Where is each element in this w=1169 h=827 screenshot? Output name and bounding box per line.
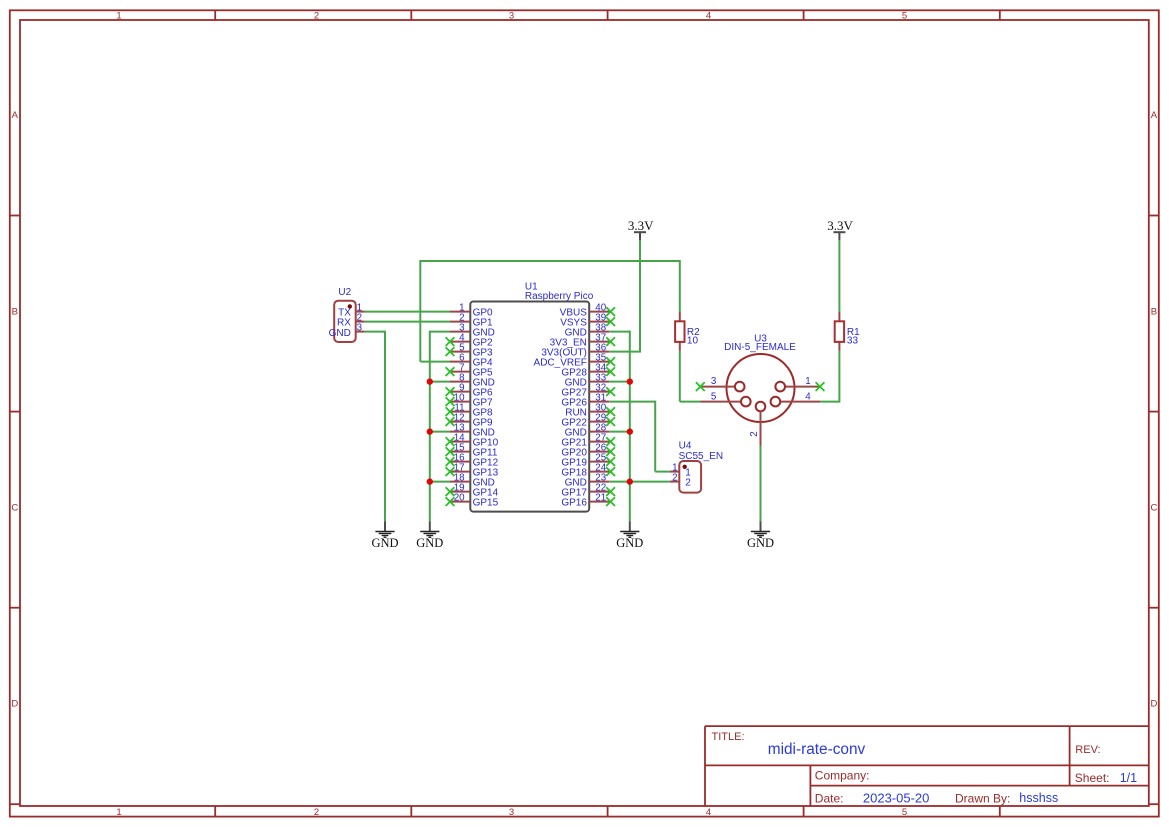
wire 3.3V right down to R1 top <box>838 240 840 312</box>
U1 left pins 1-20 with numbers and names <box>450 302 499 508</box>
wire U1 right GND rail vertical <box>629 331 631 522</box>
svg-text:D: D <box>11 698 18 709</box>
connector U3 DIN-5_FEMALE <box>696 334 825 446</box>
wire top rail GP4 to R2 horizontal <box>420 260 680 262</box>
U1 no-connect X marks <box>446 307 615 506</box>
svg-text:3: 3 <box>711 376 717 387</box>
svg-text:GND: GND <box>747 536 774 550</box>
svg-text:TITLE:: TITLE: <box>712 731 745 743</box>
wire 3.3V left rail vertical to pin36 row <box>639 240 641 352</box>
wire top rail vertical down to U1 pin6 GP4 <box>419 260 421 362</box>
U4 pin-1 marker dot <box>683 465 687 469</box>
wire U2 pin2 RX to U1 pin2 GP1 <box>365 321 450 323</box>
wire U1 pin3 GND horizontal <box>430 331 450 333</box>
U3 pin 4 stub and hole <box>780 401 820 403</box>
wire into U1 pin6 GP4 <box>420 361 450 363</box>
svg-text:3: 3 <box>357 323 363 334</box>
svg-text:5: 5 <box>711 392 717 403</box>
svg-text:SC55_EN: SC55_EN <box>679 451 723 462</box>
svg-text:hsshss: hsshss <box>1019 791 1058 805</box>
svg-text:1/1: 1/1 <box>1120 771 1137 785</box>
svg-text:Sheet:: Sheet: <box>1075 771 1110 785</box>
svg-text:1: 1 <box>116 807 121 818</box>
power symbol 3.3V right <box>827 218 853 241</box>
svg-text:2: 2 <box>672 473 677 484</box>
junction dot U1 pin13 GND <box>427 428 433 434</box>
U3 pin 3 stub and hole <box>701 386 736 388</box>
wire into U3 pin5 <box>680 401 701 403</box>
svg-text:1: 1 <box>116 11 121 22</box>
wire U1 left GND rail vertical <box>429 331 431 522</box>
svg-text:GND: GND <box>416 536 443 550</box>
svg-text:C: C <box>11 502 18 513</box>
wire U1 pin36 3V3(OUT) to 3.3V rail <box>609 351 641 353</box>
wire U2 GND vertical down to ground <box>384 331 386 522</box>
junction dot U1 pin28 GND <box>627 428 633 434</box>
U1 right pins 21-40 with numbers and names <box>534 302 610 508</box>
U3 no-connect X on pin 3 <box>696 382 705 391</box>
svg-text:GP16: GP16 <box>561 497 587 508</box>
wire top rail vertical down to R2 top <box>679 260 681 312</box>
wire R1 bottom vertical <box>838 351 840 403</box>
svg-text:5: 5 <box>902 807 907 818</box>
wire R2 bottom vertical down to DIN pin5 row <box>679 351 681 402</box>
svg-text:GND: GND <box>616 536 643 550</box>
svg-text:GND: GND <box>329 328 351 339</box>
svg-text:A: A <box>1151 110 1158 121</box>
resistor R2 value 10 <box>675 312 700 351</box>
ground symbol GND under U1 left rail <box>416 522 443 550</box>
ground symbol GND under U2 <box>371 522 398 550</box>
connector U4 SC55_EN <box>670 441 723 493</box>
svg-text:D: D <box>1150 698 1157 709</box>
svg-text:Raspberry Pico: Raspberry Pico <box>525 291 594 302</box>
wire stub to U1 pin28 GND <box>609 431 630 433</box>
U3 pin 2 hole and stub going down <box>756 402 766 412</box>
title block <box>705 726 1149 806</box>
svg-text:GP15: GP15 <box>473 497 499 508</box>
svg-text:4: 4 <box>706 807 711 818</box>
svg-text:2: 2 <box>314 807 319 818</box>
wire U1 pin23 GND to U4 pin2 <box>609 481 670 483</box>
svg-text:21: 21 <box>595 492 606 503</box>
ground symbol GND under U1 right rail <box>616 522 643 550</box>
wire U3 pin2 down to ground <box>760 446 762 522</box>
U3 body circle <box>727 354 795 422</box>
U2 pin-1 marker dot <box>348 304 352 308</box>
svg-text:1: 1 <box>805 376 810 387</box>
wire stub to U1 pin8 GND <box>430 381 450 383</box>
svg-text:3.3V: 3.3V <box>628 218 654 233</box>
svg-text:B: B <box>12 306 18 317</box>
power symbol 3.3V left <box>628 218 654 241</box>
ground symbol GND under U3 pin 2 <box>747 522 774 550</box>
svg-text:5: 5 <box>902 11 907 22</box>
svg-text:4: 4 <box>805 392 811 403</box>
svg-text:3: 3 <box>509 11 514 22</box>
wire U3 pin4 to R1 rail <box>820 401 839 403</box>
svg-text:A: A <box>12 110 19 121</box>
svg-text:Company:: Company: <box>815 768 870 782</box>
svg-text:3.3V: 3.3V <box>827 218 853 233</box>
IC U1 Raspberry Pico <box>446 281 615 511</box>
junction dot U1 pin8 GND <box>427 378 433 384</box>
svg-text:U2: U2 <box>338 287 351 298</box>
svg-text:4: 4 <box>706 11 711 22</box>
junction dot U1 pin23 GND <box>627 478 633 484</box>
svg-text:midi-rate-conv: midi-rate-conv <box>768 741 866 758</box>
svg-text:2: 2 <box>314 11 319 22</box>
svg-text:20: 20 <box>454 492 465 503</box>
U3 pin 5 stub and hole <box>701 401 742 403</box>
connector U2 (TX/RX/GND header) <box>329 287 365 342</box>
wire GP26 into U4 pin1 <box>655 471 670 473</box>
U4 pins 1-2 <box>670 463 691 489</box>
wire stub to U1 pin33 GND <box>609 381 630 383</box>
svg-text:B: B <box>1151 306 1157 317</box>
wire U2 pin1 TX to U1 pin1 GP0 <box>365 311 450 313</box>
wire U2 pin3 GND horizontal <box>365 331 385 333</box>
svg-text:C: C <box>1150 502 1157 513</box>
svg-text:33: 33 <box>847 336 859 347</box>
svg-text:GND: GND <box>371 536 398 550</box>
wire GP26 vertical down <box>654 401 656 472</box>
junction dot U1 pin18 GND <box>427 478 433 484</box>
svg-text:Drawn By:: Drawn By: <box>955 791 1010 805</box>
U3 no-connect X on pin 1 <box>816 382 825 391</box>
wire U1 pin38 GND horizontal <box>609 331 630 333</box>
svg-text:DIN-5_FEMALE: DIN-5_FEMALE <box>724 342 796 353</box>
U2 pin name labels TX RX GND <box>329 308 352 339</box>
resistor R1 value 33 <box>835 312 860 351</box>
svg-text:2: 2 <box>685 478 691 489</box>
svg-text:10: 10 <box>687 336 699 347</box>
wire stub to U1 pin13 GND <box>430 431 450 433</box>
svg-text:3: 3 <box>509 807 514 818</box>
wire stub to U1 pin18 GND <box>430 481 450 483</box>
svg-text:REV:: REV: <box>1075 744 1100 756</box>
wire U1 pin31 GP26 horizontal <box>609 401 655 403</box>
svg-text:2: 2 <box>749 431 760 436</box>
U3 pin 1 stub and hole <box>785 386 819 388</box>
junction dot U1 pin33 GND <box>627 378 633 384</box>
svg-text:Date:: Date: <box>815 791 844 805</box>
svg-text:2023-05-20: 2023-05-20 <box>863 790 930 805</box>
U2 pins 1-3 <box>356 303 365 334</box>
